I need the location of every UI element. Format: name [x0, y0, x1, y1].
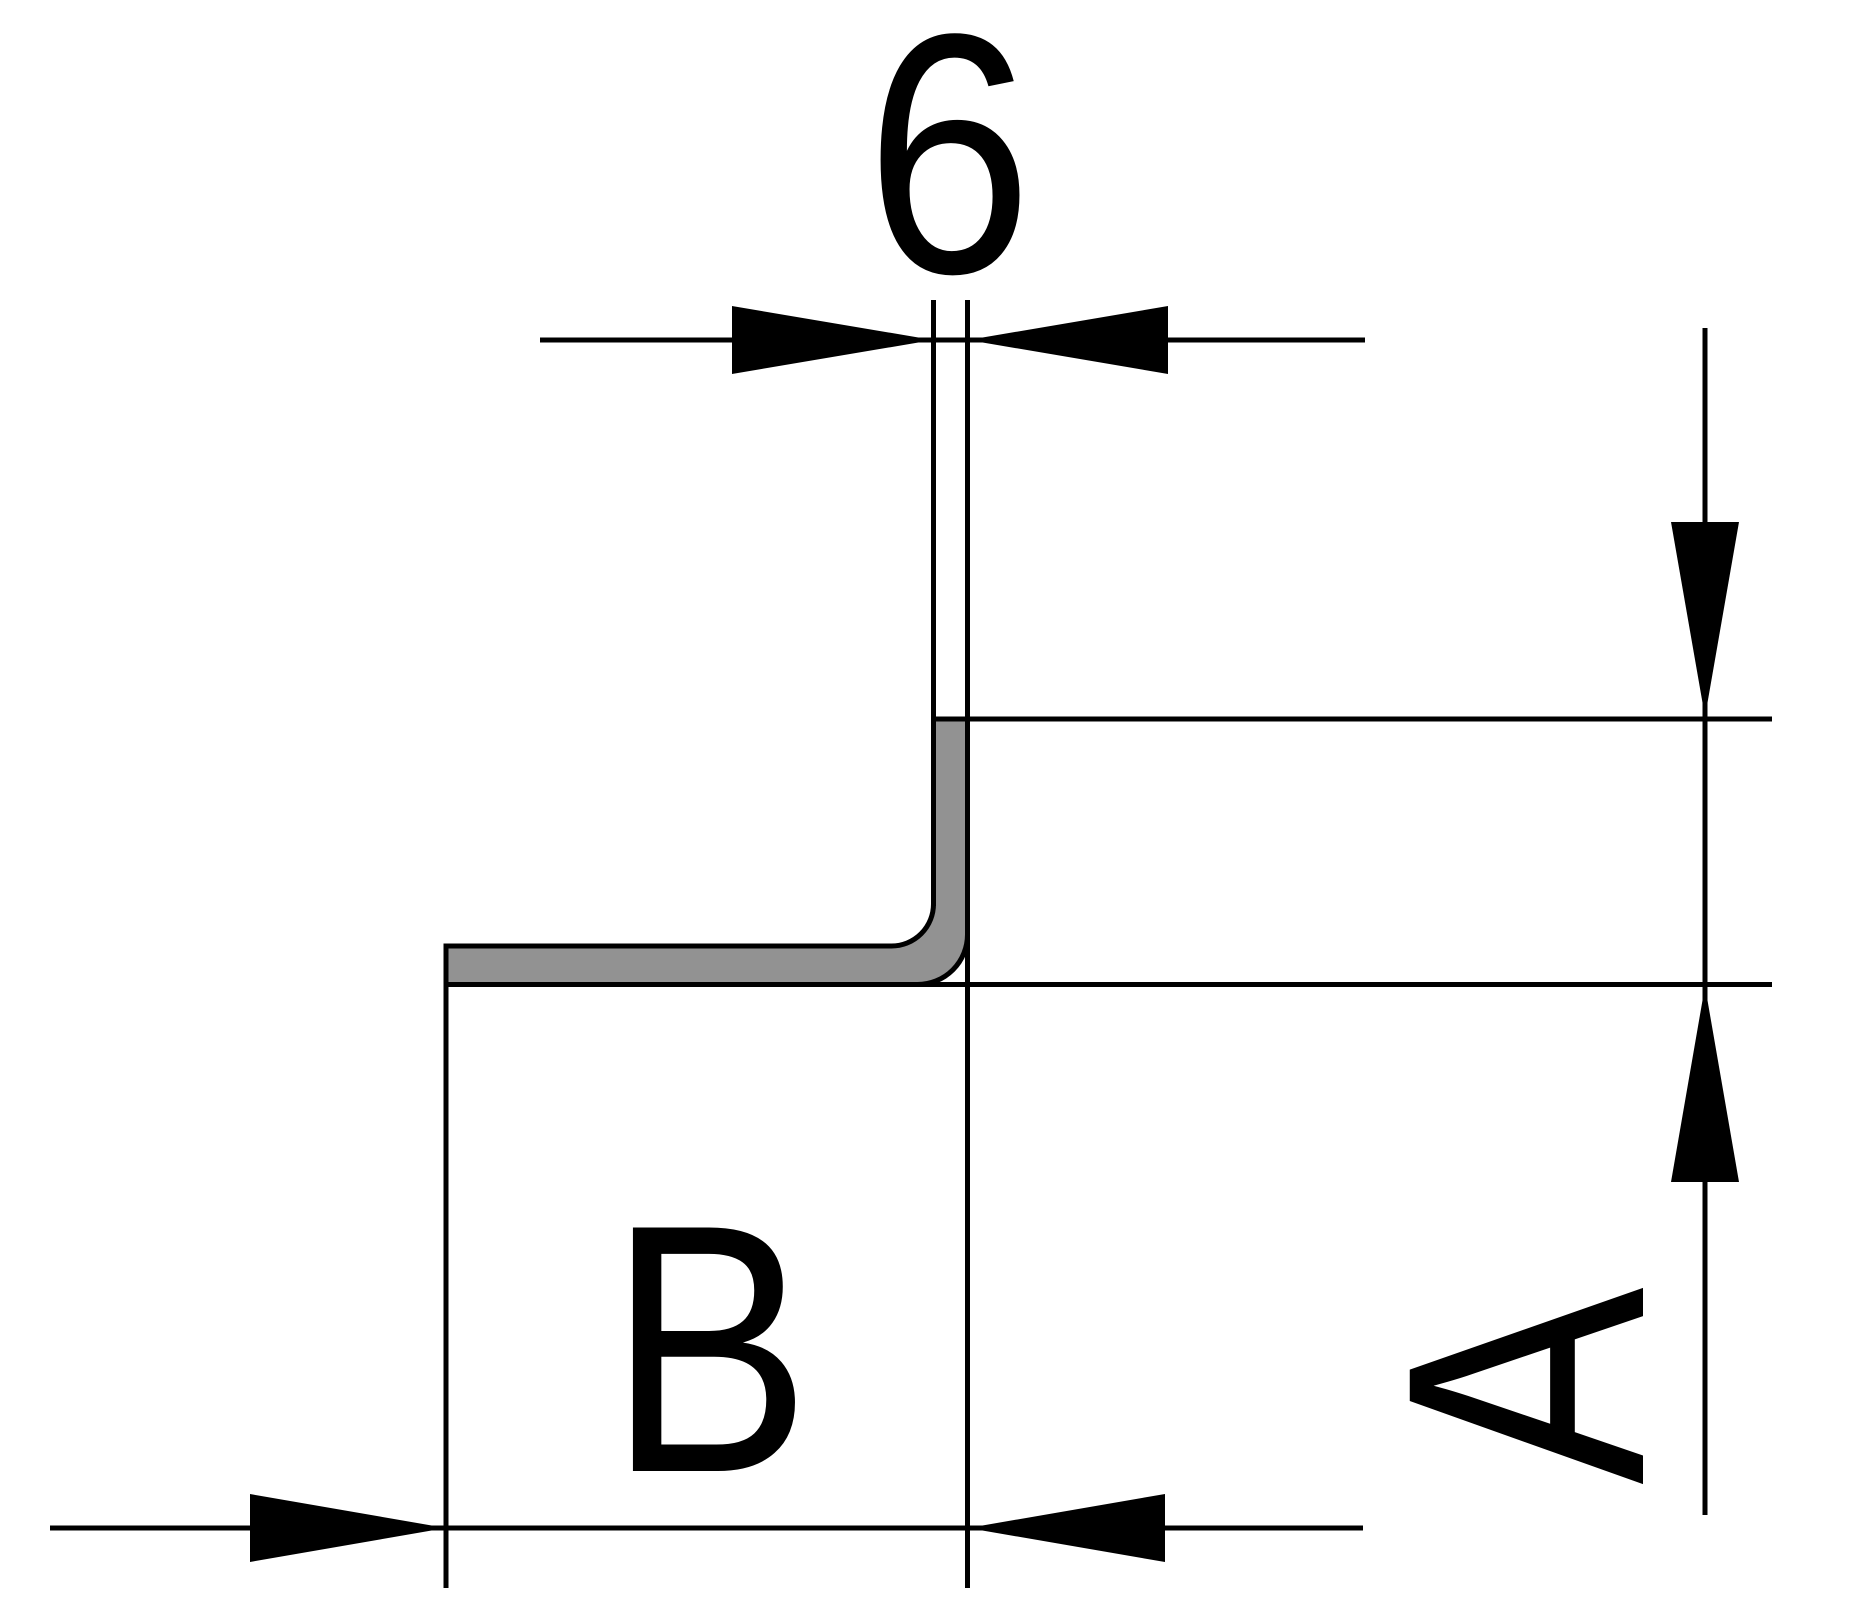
svg-text:A: A — [1337, 1286, 1715, 1485]
arrowhead right of dimension B — [968, 1494, 1165, 1562]
extension line left face of vertical leg (x=933.5) — [931, 300, 936, 906]
extension line bottom edge of profile (y=984.5) — [444, 982, 1772, 987]
arrowhead left of thickness dimension — [732, 306, 933, 374]
arrowhead down of dimension A — [1671, 522, 1739, 717]
arrowhead right of thickness dimension — [968, 306, 1168, 374]
extension line top edge of profile (y=719) — [933, 717, 1772, 722]
extension line left end of horizontal leg (x=446) — [444, 946, 449, 1588]
L-profile cross-section (gray section fill) — [446, 719, 968, 985]
arrowhead up of dimension A — [1671, 986, 1739, 1182]
dimension line A (x=1705) — [1703, 328, 1708, 1515]
svg-text:B: B — [608, 1150, 811, 1546]
svg-text:6: 6 — [865, 0, 1032, 345]
extension line right face of vertical leg (x=967.5) — [965, 300, 970, 1588]
arrowhead left of dimension B — [250, 1494, 446, 1562]
dimension line thickness 6 (y=340) — [540, 338, 1365, 343]
dimension line B (y=1528) — [50, 1526, 1363, 1531]
